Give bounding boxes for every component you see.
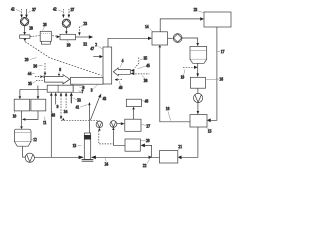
wire P3 to box 27 (117, 122, 125, 125)
dashed arrow 44 (35, 75, 46, 78)
recycle wire left (34, 156, 84, 160)
label 26 (43, 23, 47, 30)
wire box 16 to pump P5 (197, 88, 199, 93)
svg-text:2: 2 (95, 43, 97, 47)
svg-text:43: 43 (103, 97, 107, 101)
splitter header wire (20, 88, 47, 90)
label 4 (120, 59, 123, 67)
label 40 (119, 81, 123, 90)
dashed arrow 19 (183, 66, 198, 69)
label 6 (79, 86, 84, 90)
pump P5 (194, 93, 203, 102)
label 45 (138, 64, 150, 69)
svg-text:13: 13 (73, 144, 77, 148)
svg-text:17: 17 (221, 50, 225, 54)
block arrow 4 (into column) (113, 68, 130, 76)
dashed arrow 35 (36, 79, 48, 82)
dashed arrow 45 (135, 58, 139, 68)
svg-text:32: 32 (83, 42, 87, 46)
dashed arrow 36 down into block arrow 8 (44, 63, 47, 76)
label 30 (67, 40, 71, 47)
box 28 (bottom) (125, 139, 140, 151)
svg-text:3: 3 (91, 89, 93, 93)
svg-text:22: 22 (143, 164, 147, 168)
dosing box F1 (20, 35, 30, 39)
label 38 (142, 75, 148, 83)
box 16 (190, 77, 205, 88)
dashed line F1 to conveying duct (25, 42, 102, 76)
svg-text:40: 40 (119, 86, 123, 90)
label 15 (207, 127, 212, 133)
label 21 (178, 145, 182, 150)
svg-text:48: 48 (51, 113, 55, 117)
dashed wire canister 26 to box F2 (52, 35, 60, 38)
outlet arrow below F1 (24, 39, 27, 42)
filter cylinder 13 (82, 133, 94, 161)
svg-text:33: 33 (77, 98, 81, 102)
wire box 15 to box 21 (178, 127, 198, 159)
drop arrow into box 10 (19, 89, 22, 99)
wire valve V1 to box F1 (23, 26, 26, 35)
dashed arrow 23 into line 32 (78, 27, 81, 36)
inlet arrow below box 14 (158, 45, 161, 47)
label 18 (166, 107, 171, 121)
wire vessel 7 to box 16 (196, 63, 199, 77)
label 2 (95, 43, 102, 49)
wire box 10 down to vessel 12 (20, 111, 23, 129)
dashed arrow 38 (135, 73, 149, 75)
svg-text:23: 23 (194, 8, 198, 12)
svg-text:23: 23 (83, 22, 87, 26)
up arrow stem 3 (dashed) (60, 92, 63, 119)
vessel 7 (190, 46, 207, 63)
svg-text:30: 30 (67, 43, 71, 47)
wire recycle branch into box 28 (141, 144, 152, 158)
svg-text:21: 21 (178, 145, 182, 149)
svg-text:46: 46 (145, 100, 149, 104)
svg-text:7: 7 (82, 90, 84, 94)
dashed manifold wire (61, 119, 99, 121)
label 23 (top) (194, 8, 204, 13)
recycle wire right of filter (91, 156, 160, 160)
wire P4 to vessel 7 (182, 38, 199, 46)
svg-text:9: 9 (57, 105, 59, 109)
wire 18 riser to box 15 (160, 47, 190, 121)
box 21 (160, 151, 178, 163)
svg-text:16: 16 (219, 77, 223, 81)
block arrow 8 (to duct) (45, 75, 70, 84)
label 28 (bottom box) (141, 139, 150, 143)
svg-text:10: 10 (13, 115, 17, 119)
pump P4 (173, 34, 182, 43)
label 46 (142, 100, 149, 104)
cyclone box 14 (152, 32, 168, 45)
grate band cells (47, 85, 73, 92)
arrow 41 (76, 102, 91, 133)
label 10 tick (13, 111, 17, 118)
label 8 and arrow into block arrow 8 top (59, 68, 61, 72)
diagonal arrow 43 (90, 94, 106, 121)
up arrow stem 1 (50, 92, 53, 157)
label 12 (31, 138, 37, 142)
wire box 14 top to box 23 (160, 17, 204, 32)
svg-text:38: 38 (144, 79, 148, 83)
wire box 14 to pump P4 (168, 37, 173, 39)
box 27 (125, 119, 141, 131)
label 36 (33, 64, 42, 68)
up arrow stem 5 + label 33 (70, 92, 81, 103)
svg-text:8: 8 (59, 68, 61, 72)
pump P2 (96, 121, 103, 128)
wire box 27 up to box 46 (132, 107, 135, 120)
wire P3 down to box 28 (113, 130, 125, 145)
svg-text:4: 4 (122, 59, 124, 63)
junction arrows at tail of block arrow 4 (131, 69, 135, 75)
label 28 (feeder 1) (29, 27, 33, 31)
pump P1 (25, 153, 34, 162)
label 35 (right) (140, 57, 148, 61)
rotary valve V1 (20, 17, 28, 25)
svg-text:11: 11 (43, 121, 47, 125)
svg-text:44: 44 (28, 72, 32, 76)
riser to splitter (37, 85, 39, 89)
vessel 12 (14, 129, 31, 146)
flow arrow 22 on recycle wire (143, 156, 152, 168)
svg-text:42: 42 (53, 7, 57, 11)
reactor column 2 (103, 47, 112, 84)
pump P3 (110, 121, 117, 128)
stream 47 arrow into column (93, 55, 103, 58)
label 16 (206, 77, 223, 81)
dosing box F2 (60, 34, 76, 40)
wire P5 to box 15 (197, 103, 200, 115)
svg-text:15: 15 (208, 130, 212, 134)
label 44 (28, 72, 35, 76)
wire box 11 join (22, 111, 38, 121)
label 7 (band) (78, 90, 83, 94)
label 14 (145, 25, 152, 31)
label 42 (left feeder) (11, 7, 21, 11)
svg-text:14: 14 (145, 25, 149, 29)
canister 26 (40, 31, 51, 44)
svg-text:12: 12 (33, 138, 37, 142)
svg-text:28: 28 (146, 139, 150, 143)
svg-text:35: 35 (28, 82, 32, 86)
label 7 (217, 50, 224, 54)
svg-text:41: 41 (76, 106, 80, 110)
dashed wire P2 down and right (99, 131, 114, 144)
svg-text:42: 42 (11, 7, 15, 11)
dashed wire F1 to canister 26 (30, 35, 40, 38)
wire vessel 12 to pump P1 (23, 146, 26, 157)
label 27 (141, 124, 150, 128)
stream 32 arrow (76, 35, 94, 38)
label 35 (28, 81, 35, 86)
hopper box 10 (14, 99, 30, 111)
label 42 (right feeder) (53, 7, 63, 11)
label 32 (83, 42, 87, 46)
svg-text:37: 37 (32, 8, 36, 12)
svg-text:26: 26 (43, 23, 47, 27)
label 48 (51, 110, 55, 117)
label 23 (dashed inlet) (81, 22, 88, 27)
svg-text:47: 47 (90, 47, 94, 51)
drop arrow into box 11 (37, 89, 40, 99)
svg-text:36: 36 (33, 64, 37, 68)
label 28 (dashed line) (25, 58, 37, 62)
label 3 (91, 85, 98, 93)
column riser and feed wire to box 14 (108, 37, 152, 47)
svg-text:28: 28 (25, 58, 29, 62)
box 23 (204, 12, 231, 27)
wire valve V2 to box F2 (65, 28, 68, 35)
box 15 (190, 115, 207, 128)
svg-text:27: 27 (146, 124, 150, 128)
grate band right box (73, 85, 82, 92)
svg-text:19: 19 (181, 75, 185, 79)
wire feed arrows into valve V2 (62, 9, 70, 18)
inlet triangle below P3 (112, 127, 115, 130)
label 37 (left feeder) (28, 8, 36, 13)
svg-text:45: 45 (146, 64, 150, 68)
label 37 (right feeder) (69, 8, 74, 13)
hopper box 11 (31, 99, 46, 111)
svg-text:37: 37 (71, 8, 75, 12)
wire box 23 down to box 15 (207, 27, 217, 122)
label 47 (90, 47, 94, 51)
box 46 (126, 99, 141, 106)
conveying duct 3 (71, 78, 104, 85)
label 11 (43, 117, 47, 126)
label 13 (73, 144, 82, 148)
svg-text:35: 35 (144, 57, 148, 61)
label 24 (105, 158, 109, 167)
rotary valve V2 (62, 19, 70, 27)
inlet triangle below P2 (98, 128, 101, 131)
svg-text:34: 34 (64, 110, 68, 114)
svg-text:28: 28 (29, 27, 33, 31)
svg-text:24: 24 (105, 163, 109, 167)
dashed arrow 40 (115, 78, 123, 81)
up arrow stem 4 (dashed) + label 34 (64, 92, 68, 113)
svg-text:18: 18 (166, 107, 170, 111)
wire feed arrows into valve V1 (20, 9, 28, 18)
up arrow stem 2 + label 9 (54, 92, 58, 109)
label 19 (181, 69, 185, 79)
junction triangle on manifold (62, 118, 65, 121)
